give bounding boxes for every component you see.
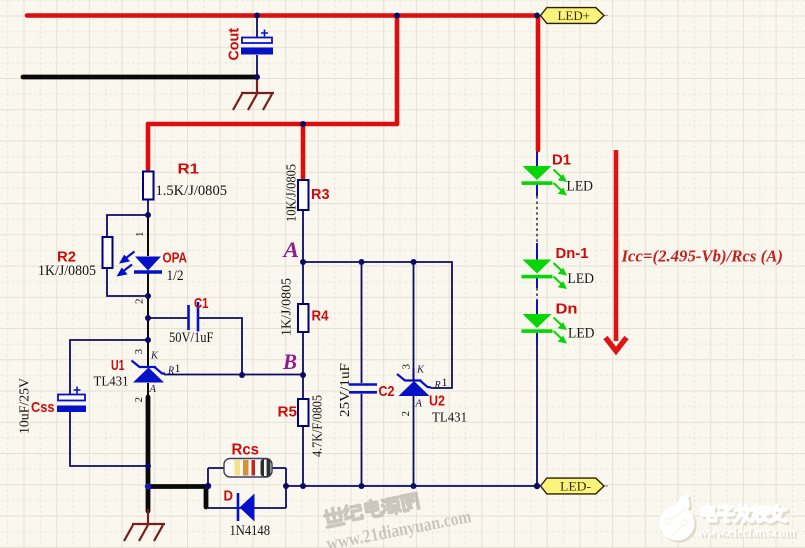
svg-text:2: 2 xyxy=(134,299,146,305)
svg-text:TL431: TL431 xyxy=(94,374,129,389)
svg-text:LED: LED xyxy=(568,271,595,287)
svg-text:1: 1 xyxy=(134,232,146,238)
svg-text:50V/1uF: 50V/1uF xyxy=(169,330,214,346)
svg-text:R: R xyxy=(167,366,174,377)
svg-text:2: 2 xyxy=(400,411,412,417)
svg-text:R4: R4 xyxy=(312,308,330,325)
svg-text:Dn: Dn xyxy=(556,301,578,318)
svg-text:3: 3 xyxy=(401,364,413,370)
svg-text:10uF/25V: 10uF/25V xyxy=(18,378,33,434)
svg-text:D: D xyxy=(224,488,234,505)
svg-text:U1: U1 xyxy=(111,357,125,374)
svg-text:4.7K/F/0805: 4.7K/F/0805 xyxy=(311,395,326,457)
svg-text:K: K xyxy=(416,365,425,376)
svg-text:R3: R3 xyxy=(311,186,330,203)
svg-text:1.5K/J/0805: 1.5K/J/0805 xyxy=(156,183,228,199)
svg-text:1K/J/0805: 1K/J/0805 xyxy=(38,263,96,279)
svg-text:R: R xyxy=(434,380,441,391)
svg-text:A: A xyxy=(415,399,423,410)
svg-text:Rcs: Rcs xyxy=(232,442,260,459)
svg-text:C1: C1 xyxy=(194,295,209,312)
svg-text:R1: R1 xyxy=(178,161,200,178)
svg-text:LED+: LED+ xyxy=(558,8,591,23)
svg-text:R5: R5 xyxy=(278,404,298,421)
svg-text:1K/J/0805: 1K/J/0805 xyxy=(280,278,295,336)
svg-text:C2: C2 xyxy=(379,383,395,400)
svg-text:A: A xyxy=(281,237,299,262)
svg-text:A: A xyxy=(149,384,157,395)
svg-text:LED-: LED- xyxy=(560,479,591,494)
svg-text:LED: LED xyxy=(568,326,595,342)
svg-text:LED: LED xyxy=(567,179,594,195)
svg-text:1: 1 xyxy=(442,375,448,389)
svg-text:TL431: TL431 xyxy=(432,410,467,425)
svg-text:1N4148: 1N4148 xyxy=(230,523,271,539)
svg-text:www.elecfans.com: www.elecfans.com xyxy=(699,526,796,541)
svg-text:B: B xyxy=(282,349,297,374)
svg-text:Dn-1: Dn-1 xyxy=(556,245,589,262)
svg-text:2: 2 xyxy=(133,397,145,403)
svg-text:1/2: 1/2 xyxy=(167,268,184,284)
svg-text:10K/J/0805: 10K/J/0805 xyxy=(285,164,300,222)
svg-text:K: K xyxy=(150,351,159,362)
svg-text:Css: Css xyxy=(31,399,55,416)
svg-text:1: 1 xyxy=(175,361,181,375)
svg-text:U2: U2 xyxy=(429,393,445,410)
svg-text:Icc=(2.495-Vb)/Rcs (A): Icc=(2.495-Vb)/Rcs (A) xyxy=(621,247,783,266)
svg-text:OPA: OPA xyxy=(163,250,188,267)
svg-text:25V/1uF: 25V/1uF xyxy=(338,363,353,417)
svg-text:Cout: Cout xyxy=(226,28,243,61)
svg-text:3: 3 xyxy=(133,349,145,355)
svg-text:D1: D1 xyxy=(552,152,571,169)
